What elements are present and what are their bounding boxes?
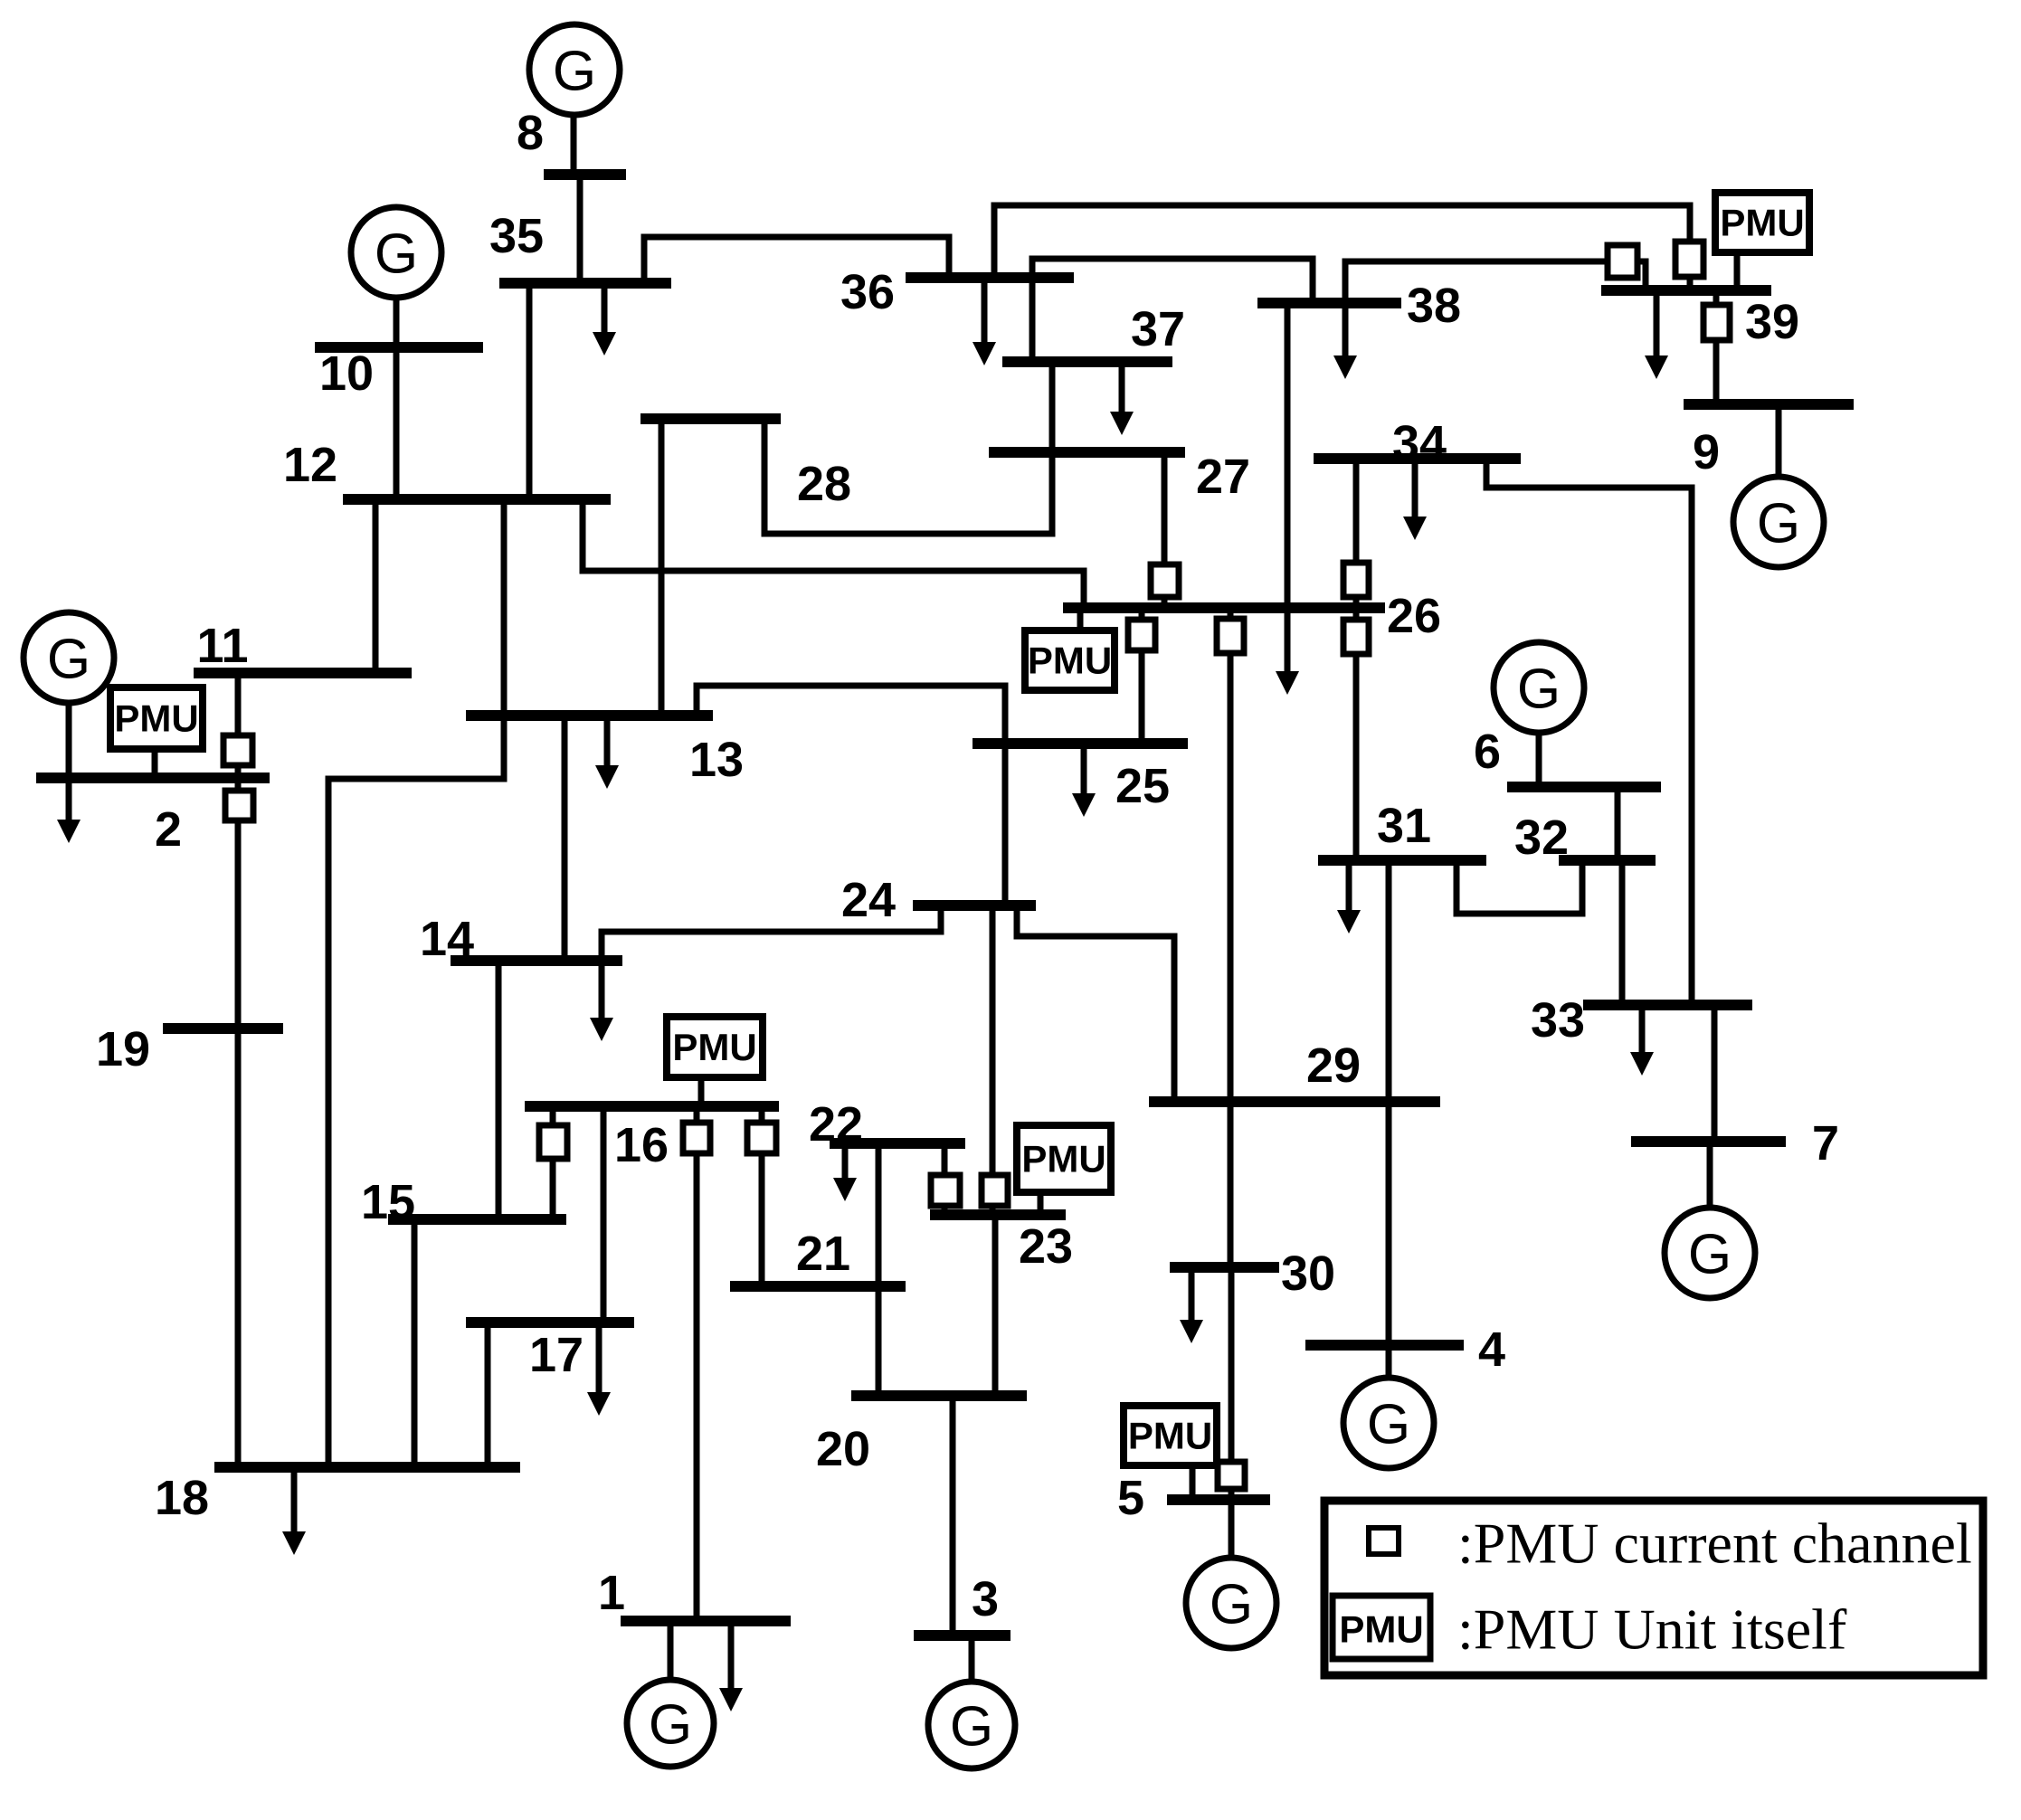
wire bus26-bus31 — [1353, 608, 1360, 860]
svg-text:6: 6 — [1474, 725, 1501, 779]
PMU unit at bus 23 — [1017, 1125, 1111, 1192]
load arrow bus 35 — [593, 283, 616, 355]
wire G7 stem — [1707, 1142, 1713, 1208]
wire bus15-bus18 — [412, 1219, 418, 1467]
svg-text:G: G — [649, 1694, 692, 1757]
PMU current channel square on line 36-39 — [1675, 242, 1703, 277]
svg-text:23: 23 — [1019, 1219, 1073, 1274]
wire G10 stem and bus10-bus12 — [394, 298, 400, 499]
wire bus6-bus32 — [1615, 787, 1621, 860]
wire PMU23 stub — [1038, 1192, 1044, 1215]
wire PMU39 stub — [1734, 252, 1741, 290]
svg-text:G: G — [950, 1696, 993, 1758]
bus 9 bar — [1684, 399, 1854, 410]
svg-text:16: 16 — [614, 1118, 669, 1172]
bus 17 bar — [466, 1317, 634, 1328]
svg-text:34: 34 — [1392, 416, 1447, 470]
wire bus24-bus14 west link — [602, 905, 941, 961]
PMU current channel square on line 16-21 — [747, 1123, 776, 1153]
svg-text:26: 26 — [1387, 589, 1441, 643]
wire bus28-bus13 — [659, 419, 665, 716]
svg-text:PMU: PMU — [1021, 1138, 1105, 1180]
wire bus23-bus20 — [992, 1215, 999, 1396]
generator G at bus 6 — [1494, 642, 1584, 733]
wire PMU26 stub — [1077, 608, 1084, 630]
svg-text:10: 10 — [319, 346, 374, 401]
bus 1 bar — [621, 1616, 791, 1626]
wire bus22-bus23 — [942, 1143, 948, 1215]
bus 29 bar — [1149, 1096, 1440, 1107]
svg-text:G: G — [1367, 1394, 1410, 1456]
wire bus30-bus5 — [1229, 1267, 1235, 1500]
bus 18 bar — [214, 1462, 520, 1473]
bus 7 bar — [1631, 1136, 1786, 1147]
bus 33 bar — [1583, 1000, 1752, 1010]
svg-text:13: 13 — [689, 733, 744, 787]
wire bus20-bus3 — [950, 1396, 956, 1635]
bus 32 bar — [1559, 855, 1656, 866]
svg-text:G: G — [1757, 493, 1800, 555]
bus 27 bar — [989, 447, 1185, 458]
generator G at bus 10 — [351, 207, 441, 298]
bus 19 bar — [163, 1023, 283, 1034]
load arrow bus 38 — [1333, 303, 1357, 379]
PMU current channel square on line 22-23 — [931, 1175, 960, 1206]
load arrow bus 14 — [590, 961, 613, 1041]
generator G at bus 9 — [1733, 477, 1824, 567]
wire bus16-bus21 — [759, 1106, 765, 1286]
wire bus12-bus13-bus18 — [328, 499, 504, 1467]
wire PMU5 stub — [1190, 1465, 1196, 1500]
svg-text:15: 15 — [361, 1175, 415, 1229]
wire bus31-bus29-bus4 — [1386, 860, 1392, 1345]
wire bus26-bus30 — [1228, 608, 1234, 1267]
wire bus16-bus1 — [694, 1106, 700, 1621]
svg-text:2: 2 — [155, 802, 182, 857]
svg-text:PMU: PMU — [1128, 1415, 1212, 1457]
bus 21 bar — [730, 1281, 906, 1292]
wire bus37-bus27 — [1049, 362, 1056, 452]
generator G at bus 4 — [1343, 1378, 1434, 1468]
bus 37 bar — [1002, 356, 1172, 367]
wire bus14-bus15 — [496, 961, 502, 1219]
generator G at bus 2 — [24, 612, 114, 703]
wire bus31-bus32 U link — [1456, 860, 1582, 914]
load arrow bus 36 — [973, 278, 996, 365]
PMU current channel square on line 26-25 — [1128, 620, 1155, 650]
PMU unit at bus 26 — [1025, 630, 1115, 690]
load arrow bus 22 — [833, 1143, 857, 1201]
wire G5 stem — [1229, 1500, 1235, 1558]
svg-text:35: 35 — [489, 209, 544, 263]
load arrow bus 18 — [282, 1467, 306, 1555]
bus 28 bar — [640, 413, 781, 424]
svg-text:PMU: PMU — [1339, 1608, 1423, 1651]
svg-text:21: 21 — [796, 1227, 850, 1281]
wire bus32-bus33 — [1619, 860, 1626, 1005]
wire bus27-bus26 — [1162, 452, 1168, 608]
wire PMU2 stub — [152, 749, 158, 778]
wire bus36 top line to bus39 — [994, 205, 1690, 290]
load arrow bus 25 — [1072, 744, 1096, 817]
wire bus35-bus12 — [527, 283, 533, 499]
generator G at bus 8 — [529, 24, 620, 115]
bus 20 bar — [851, 1390, 1027, 1401]
svg-text:4: 4 — [1478, 1322, 1505, 1377]
legend current channel square — [1369, 1528, 1399, 1554]
svg-text:27: 27 — [1196, 450, 1250, 504]
svg-text::PMU current channel: :PMU current channel — [1457, 1512, 1972, 1576]
svg-text:G: G — [1688, 1224, 1732, 1286]
svg-text:3: 3 — [972, 1572, 999, 1626]
svg-text:8: 8 — [517, 106, 544, 160]
wire bus17-bus18 — [485, 1322, 491, 1467]
wire G2 stem — [66, 703, 72, 778]
bus 26 bar — [1063, 602, 1385, 613]
svg-text:17: 17 — [529, 1328, 584, 1382]
PMU unit at bus 2 — [110, 687, 203, 749]
bus 39 bar — [1601, 285, 1771, 296]
wire bus13-bus14 — [562, 716, 568, 961]
wire bus16-bus15 — [550, 1106, 556, 1219]
PMU unit at bus 16 — [667, 1017, 763, 1077]
wire bus34-bus33 — [1486, 459, 1692, 1005]
wire bus34-bus26 — [1353, 459, 1360, 608]
svg-text:20: 20 — [816, 1422, 870, 1476]
svg-text:G: G — [1517, 659, 1561, 721]
svg-text:33: 33 — [1531, 993, 1585, 1047]
bus 24 bar — [913, 900, 1036, 911]
svg-text:19: 19 — [96, 1022, 150, 1076]
generator G at bus 7 — [1665, 1208, 1755, 1298]
svg-text:38: 38 — [1407, 279, 1461, 333]
bus 15 bar — [388, 1214, 566, 1225]
bus 23 bar — [930, 1209, 1066, 1220]
bus 34 bar — [1314, 453, 1521, 464]
wire bus22-bus21-bus20 — [876, 1143, 882, 1396]
svg-text:28: 28 — [797, 457, 851, 511]
legend PMU unit box — [1333, 1596, 1430, 1659]
wire bus37-bus38 link — [1032, 259, 1313, 362]
wire bus12-bus11 — [373, 499, 379, 673]
load arrow bus 2 — [57, 778, 81, 843]
bus 25 bar — [973, 738, 1188, 749]
wire bus38-bus26 — [1285, 303, 1291, 608]
svg-text:1: 1 — [598, 1566, 625, 1620]
wire bus25-bus24 — [1002, 744, 1009, 905]
svg-text:29: 29 — [1306, 1038, 1361, 1093]
PMU current channel square on line 16-1 — [683, 1123, 710, 1153]
wire bus13-bus25 — [697, 686, 1005, 744]
PMU current channel square on line 26-31 — [1343, 620, 1369, 654]
bus 3 bar — [914, 1630, 1010, 1641]
PMU current channel square on line 11-2 — [223, 735, 252, 765]
wire bus16-bus17 — [601, 1106, 607, 1322]
bus 5 bar — [1167, 1494, 1270, 1505]
svg-text:G: G — [47, 629, 90, 691]
PMU current channel square on line 38-39 — [1608, 245, 1637, 278]
wire G8 stem — [571, 115, 577, 175]
bus 11 bar — [194, 668, 412, 678]
svg-text:39: 39 — [1745, 295, 1799, 349]
bus 12 bar — [343, 494, 611, 505]
wire bus39-bus9 — [1713, 290, 1720, 404]
svg-text:7: 7 — [1812, 1116, 1839, 1171]
load arrow bus 37 — [1110, 362, 1134, 435]
svg-text:PMU: PMU — [1720, 202, 1804, 244]
bus 10 bar — [315, 342, 483, 353]
wire bus26-bus25 — [1139, 608, 1145, 744]
svg-text:G: G — [553, 41, 596, 103]
bus 14 bar — [451, 955, 622, 966]
bus 13 bar — [466, 710, 713, 721]
wire bus24-bus23 — [990, 905, 996, 1215]
PMU current channel square on line 34-26 — [1343, 563, 1369, 597]
generator G at bus 1 — [627, 1680, 714, 1767]
bus 8 bar — [544, 169, 626, 180]
load arrow bus 34 — [1403, 459, 1427, 540]
PMU current channel square on line 39-9 — [1703, 305, 1730, 340]
wire bus2-bus19-bus18 — [235, 778, 242, 1467]
load arrow bus 13 — [595, 716, 619, 789]
bus 16 bar — [525, 1101, 779, 1112]
svg-text:11: 11 — [196, 619, 248, 673]
bus 2 bar — [36, 773, 270, 783]
bus 30 bar — [1170, 1262, 1279, 1273]
svg-text:9: 9 — [1693, 425, 1720, 479]
PMU current channel square on line 30-5 — [1218, 1462, 1245, 1489]
svg-text:G: G — [375, 223, 418, 286]
wire G9 stem — [1776, 404, 1782, 477]
PMU current channel square on line 2-19 — [225, 791, 253, 820]
legend box — [1324, 1501, 1983, 1675]
bus 35 bar — [499, 278, 671, 289]
bus 36 bar — [906, 272, 1074, 283]
wire bus28-bus27 — [764, 419, 1052, 534]
wire bus11-bus2 — [235, 673, 242, 778]
wire square39a to bus39 — [1636, 261, 1646, 290]
svg-text:12: 12 — [283, 438, 337, 492]
wire bus33-bus7 — [1712, 1005, 1718, 1142]
svg-text:30: 30 — [1281, 1247, 1335, 1301]
load arrow bus 31 — [1337, 860, 1361, 934]
bus 4 bar — [1305, 1340, 1464, 1351]
wire G4 stem — [1386, 1345, 1392, 1378]
svg-text:G: G — [1210, 1574, 1253, 1636]
load arrow bus 30 — [1180, 1267, 1203, 1343]
PMU unit at bus 39 — [1715, 193, 1809, 252]
bus 6 bar — [1507, 782, 1661, 792]
svg-text::PMU Unit itself: :PMU Unit itself — [1457, 1597, 1847, 1662]
load arrow bus 26 — [1276, 608, 1299, 695]
svg-text:24: 24 — [841, 873, 896, 927]
svg-text:14: 14 — [420, 912, 474, 966]
svg-text:5: 5 — [1117, 1471, 1144, 1525]
svg-text:37: 37 — [1131, 302, 1185, 356]
svg-text:25: 25 — [1115, 759, 1170, 813]
wire bus12-bus26 — [583, 499, 1084, 608]
load arrow bus 17 — [587, 1322, 611, 1416]
PMU current channel square on line 27-26 — [1151, 564, 1179, 597]
wire bus8-bus35 — [577, 175, 584, 283]
wire bus38-bus39 link — [1345, 261, 1608, 303]
svg-text:PMU: PMU — [114, 697, 198, 740]
svg-text:18: 18 — [155, 1471, 209, 1525]
wire PMU16 stub — [698, 1077, 705, 1106]
PMU current channel square on line 24-23 — [982, 1175, 1008, 1206]
PMU current channel square on line 26-30 — [1217, 619, 1244, 653]
PMU unit at bus 5 — [1124, 1406, 1217, 1465]
svg-text:22: 22 — [809, 1097, 863, 1152]
wire bus35-bus36 — [644, 237, 949, 283]
load arrow bus 1 — [719, 1621, 743, 1711]
svg-text:31: 31 — [1377, 799, 1431, 853]
load arrow bus 39 — [1645, 290, 1668, 379]
svg-text:PMU: PMU — [672, 1026, 756, 1068]
wire bus24-bus29 — [1017, 905, 1174, 1102]
wire G3 stem — [969, 1635, 975, 1682]
load arrow bus 33 — [1630, 1005, 1654, 1076]
svg-text:PMU: PMU — [1028, 640, 1112, 682]
bus 38 bar — [1257, 298, 1401, 308]
generator G at bus 3 — [928, 1682, 1015, 1768]
wire G1 stem — [668, 1621, 674, 1680]
generator G at bus 5 — [1186, 1558, 1276, 1648]
svg-text:32: 32 — [1514, 810, 1569, 865]
bus 31 bar — [1318, 855, 1486, 866]
bus 22 bar — [830, 1138, 965, 1149]
wire G6 stem — [1536, 733, 1542, 787]
PMU current channel square on line 16-15 — [539, 1125, 567, 1159]
svg-text:36: 36 — [840, 265, 895, 319]
